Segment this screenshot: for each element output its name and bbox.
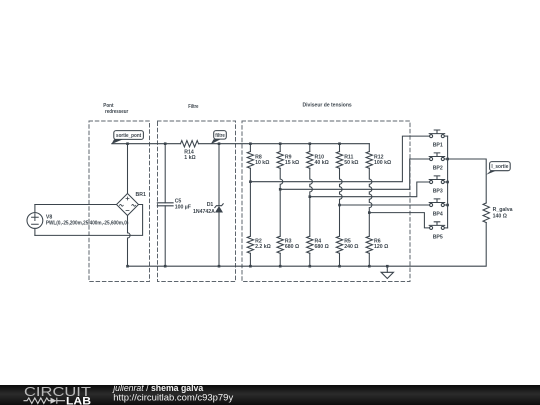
svg-text:LAB: LAB — [66, 396, 91, 405]
wire V8 bottom — [35, 205, 143, 236]
junction feed5 branch5 — [368, 211, 371, 214]
svg-text:filtre: filtre — [215, 133, 225, 139]
svg-text:100 kΩ: 100 kΩ — [374, 160, 391, 166]
bridge rectifier BR1 — [117, 194, 139, 216]
junction top rail branch3 — [309, 142, 312, 145]
section box Filtre — [158, 121, 236, 282]
divider branch R11/R5 — [336, 144, 342, 267]
wire BP1 right to rail — [444, 135, 447, 137]
svg-text:BP5: BP5 — [433, 235, 443, 241]
voltage source V8 — [27, 205, 43, 236]
pushbutton BP5 — [429, 222, 445, 230]
junction bottom rail BR1 — [126, 265, 129, 268]
ground — [381, 266, 393, 278]
svg-text:680 Ω: 680 Ω — [315, 244, 329, 250]
right rail — [447, 136, 449, 228]
svg-text:40 kΩ: 40 kΩ — [315, 160, 329, 166]
net flag sortie_pont — [111, 131, 143, 145]
junction bottom rail branch3 — [309, 265, 312, 268]
wire BR1 top to top rail — [127, 144, 129, 194]
svg-text:julienrat / shema galva: julienrat / shema galva — [112, 383, 204, 393]
feed wire branch3 to BP3 — [310, 182, 430, 197]
junction bottom rail branch2 — [279, 265, 282, 268]
svg-text:2.2 kΩ: 2.2 kΩ — [255, 244, 271, 250]
junction top rail BR1 — [126, 142, 129, 145]
feed wire branch5 to BP5 — [369, 213, 429, 228]
svg-text:1N4742A: 1N4742A — [193, 209, 215, 215]
footer logo resistor-diode glyph — [24, 398, 66, 404]
top rail right segment — [199, 143, 370, 145]
pushbutton BP3 — [429, 176, 445, 184]
divider branch R10/R4 — [307, 144, 313, 267]
pushbutton BP2 — [429, 153, 445, 161]
junction top rail branch2 — [279, 142, 282, 145]
svg-text:1 kΩ: 1 kΩ — [184, 155, 195, 161]
svg-text:BP2: BP2 — [433, 166, 443, 172]
svg-text:120 Ω: 120 Ω — [374, 244, 388, 250]
junction bottom rail D1 — [218, 265, 221, 268]
section box Pont redresseur — [89, 121, 150, 282]
svg-text:R_galva: R_galva — [493, 207, 513, 213]
wire V8 top to BR1 left — [35, 204, 117, 206]
svg-text:15 kΩ: 15 kΩ — [285, 160, 299, 166]
net flag filtre — [211, 131, 227, 145]
output wire to R_galva — [448, 159, 487, 203]
junction right rail BP4 — [446, 204, 449, 207]
svg-text:I_sortie: I_sortie — [491, 164, 508, 170]
svg-text:D1: D1 — [207, 202, 214, 208]
junction bottom rail branch4 — [338, 265, 341, 268]
divider branch R8/R2 — [247, 144, 253, 267]
wire R_galva bottom — [128, 223, 487, 267]
section box Diviseur de tensions — [242, 121, 410, 282]
wire BP5 right to rail — [444, 227, 447, 229]
junction bottom rail branch5 — [368, 265, 371, 268]
svg-text:680 Ω: 680 Ω — [285, 244, 299, 250]
svg-text:140 Ω: 140 Ω — [493, 213, 507, 219]
svg-text:BP4: BP4 — [433, 212, 443, 218]
svg-text:sortie_pont: sortie_pont — [116, 133, 142, 139]
pushbutton BP1 — [429, 130, 445, 138]
junction right rail BP3 — [446, 181, 449, 184]
junction bottom rail branch1 — [249, 265, 252, 268]
wire BP4 right to rail — [444, 204, 447, 206]
svg-text:http://circuitlab.com/c93p79y: http://circuitlab.com/c93p79y — [113, 392, 233, 403]
divider branch R9/R3 — [277, 144, 283, 267]
pushbutton BP4 — [429, 199, 445, 207]
divider branch R12/R6 — [366, 144, 372, 267]
junction top rail D1 — [218, 142, 221, 145]
feed wire branch2 to BP2 — [280, 159, 429, 189]
feed wire branch1 to BP1 — [250, 136, 429, 182]
junction feed1 branch1 — [249, 180, 252, 183]
top rail left segment — [112, 143, 181, 145]
wire BP3 right to rail — [444, 181, 447, 183]
svg-text:50 kΩ: 50 kΩ — [344, 160, 358, 166]
svg-text:100 µF: 100 µF — [175, 204, 191, 210]
svg-text:BP1: BP1 — [433, 143, 443, 149]
svg-text:PWL(0,-25,200m,25,400m,-25,600: PWL(0,-25,200m,25,400m,-25,600m,0) — [46, 221, 129, 227]
junction bottom rail C5 — [164, 265, 167, 268]
svg-text:Filtre: Filtre — [188, 104, 198, 110]
wire BR1 bottom to ground rail — [128, 216, 131, 267]
junction top rail branch1 — [249, 142, 252, 145]
feed wire branch4 to BP4 — [340, 204, 430, 206]
svg-text:redresseur: redresseur — [105, 109, 129, 115]
net flag I_sortie — [486, 162, 510, 175]
junction right rail BP2 — [446, 158, 449, 161]
junction feed2 branch2 — [279, 188, 282, 191]
junction feed4 branch4 — [338, 204, 341, 207]
svg-text:BR1: BR1 — [136, 192, 146, 198]
junction top rail C5 — [164, 142, 167, 145]
wire BP2 right to rail — [444, 158, 447, 160]
junction top rail branch4 — [338, 142, 341, 145]
svg-text:BP3: BP3 — [433, 189, 443, 195]
svg-text:240 Ω: 240 Ω — [344, 244, 358, 250]
svg-text:10 kΩ: 10 kΩ — [255, 160, 269, 166]
junction bottom rail ground — [386, 265, 389, 268]
resistor R_galva — [483, 203, 489, 223]
svg-text:Diviseur de tensions: Diviseur de tensions — [303, 103, 352, 109]
resistor R14 — [181, 141, 199, 147]
junction feed3 branch3 — [309, 195, 312, 198]
zener diode D1 — [215, 144, 223, 267]
capacitor C5 — [157, 144, 173, 267]
